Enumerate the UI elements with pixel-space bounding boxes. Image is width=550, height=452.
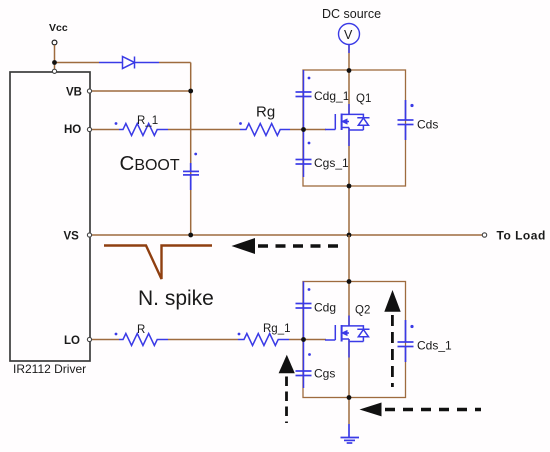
wire main rail Q2 drain [348, 235, 350, 326]
svg-text:VB: VB [66, 87, 82, 99]
polarity star Cds_1 [410, 325, 413, 328]
dashed arrow left at ground [360, 403, 382, 417]
svg-text:V: V [344, 28, 353, 42]
pin circle VB [87, 89, 91, 93]
resistor Rg_1 [238, 334, 289, 346]
wire Rg to Q1 gate node [290, 129, 304, 131]
junction dot Q1 gate [301, 127, 306, 132]
capacitor Cgs_1 [296, 160, 312, 165]
Q1 subcircuit box [303, 70, 406, 186]
junction dot Q2 source bottom [347, 395, 352, 400]
wire Vcc vertical [54, 45, 56, 72]
wire Q2 source to ground [348, 340, 350, 425]
To Load terminal circle [482, 233, 486, 237]
wire R to Rg_1 [168, 339, 238, 341]
resistor Rg [240, 124, 290, 136]
wire diode anode lead (blue) [99, 62, 122, 64]
capacitor Cds_1 [398, 320, 414, 362]
wire diode cathode to corner (brown) [159, 62, 191, 64]
MOSFET Q1 [325, 104, 370, 146]
junction dot Q1 source bottom [347, 184, 352, 189]
dashed arrow up at Cgs [279, 355, 295, 374]
junction dot VB/bootstrap [188, 89, 193, 94]
capacitor Cds [398, 100, 414, 140]
svg-text:Q1: Q1 [356, 93, 371, 105]
capacitor Cdg_1 [296, 92, 312, 97]
Q2 subcircuit box [303, 282, 406, 398]
polarity star Cgs_1 [308, 142, 311, 145]
IR2112 driver IC U1 [10, 72, 90, 361]
junction dot VS/bootstrap [188, 233, 193, 238]
wire Q1 left edge (cap leads, blue) [303, 70, 305, 177]
svg-text:Cgs: Cgs [314, 367, 335, 381]
bootstrap diode D1 [123, 57, 160, 69]
wire VS line [91, 234, 482, 236]
wire main vertical DC rail through Q1 [348, 44, 350, 114]
ground symbol [341, 424, 360, 443]
svg-text:CBOOT: CBOOT [120, 152, 180, 175]
capacitor Cgs [296, 371, 312, 376]
capacitor CBOOT [183, 163, 199, 190]
pin circle LO [87, 337, 91, 341]
polarity star CBOOT [194, 153, 197, 156]
wire VB [91, 90, 191, 92]
polarity star R [115, 333, 118, 336]
svg-text:IR2112 Driver: IR2112 Driver [13, 362, 86, 376]
pin circle VS [87, 233, 91, 237]
wire Q2 left edge (cap leads, blue) [303, 282, 305, 389]
svg-text:Cdg: Cdg [314, 301, 336, 315]
polarity star Cds [410, 104, 413, 107]
svg-text:To Load: To Load [497, 229, 546, 243]
resistor R [119, 334, 168, 346]
polarity star Cdg [308, 288, 311, 291]
polarity star Cgs [308, 353, 311, 356]
junction dot VS/main rail [347, 233, 352, 238]
svg-text:Q2: Q2 [355, 305, 370, 317]
svg-text:R_1: R_1 [137, 115, 158, 127]
dashed arrow up inside Q2 at Cds_1 [384, 290, 400, 312]
wire bootstrap vertical rail [190, 63, 192, 236]
wire Rg_1 to Q2 gate node [289, 339, 304, 341]
junction dot Q2 drain top [347, 279, 352, 284]
polarity star Rg [239, 122, 242, 125]
pin circle HO [87, 127, 91, 131]
resistor R_1 [119, 124, 168, 136]
svg-text:Cdg_1: Cdg_1 [314, 89, 350, 103]
wire Q2 gate node to gate [304, 339, 327, 341]
svg-text:DC source: DC source [322, 7, 381, 21]
svg-text:Cds: Cds [417, 118, 438, 132]
MOSFET Q2 [325, 316, 370, 358]
wire HO to R_1 [91, 129, 119, 131]
junction dot Q1 drain top [347, 68, 352, 73]
svg-text:Cds_1: Cds_1 [417, 339, 452, 353]
svg-text:LO: LO [64, 335, 80, 347]
wire Q1 source to VS [348, 128, 350, 235]
svg-text:Vcc: Vcc [49, 22, 68, 34]
svg-text:R: R [137, 324, 145, 336]
svg-text:Rg_1: Rg_1 [263, 323, 291, 335]
Vcc terminal circle [52, 40, 57, 45]
negative spike waveform [104, 246, 212, 280]
junction dot Q2 gate [301, 337, 306, 342]
polarity star Rg_1 [238, 333, 241, 336]
junction dot Vcc branch [52, 60, 57, 65]
wire V source lead (blue stub) [348, 45, 350, 54]
pin circle IC top [52, 69, 56, 73]
svg-text:N. spike: N. spike [138, 287, 214, 310]
svg-text:Cgs_1: Cgs_1 [314, 156, 349, 170]
dashed arrow current path at VS (left) [232, 238, 256, 254]
polarity star R_1 [115, 122, 118, 125]
wire R_1 to Rg [168, 129, 240, 131]
svg-text:HO: HO [64, 124, 81, 136]
capacitor Cdg [296, 304, 312, 309]
DC source V1 symbol [339, 24, 360, 45]
svg-text:Rg: Rg [256, 104, 275, 121]
wire Q1 gate node to gate [304, 129, 327, 131]
svg-text:VS: VS [64, 231, 80, 243]
wire Vcc to diode (brown) [55, 62, 100, 64]
polarity star Cdg_1 [308, 77, 311, 80]
wire LO to R [91, 339, 119, 341]
